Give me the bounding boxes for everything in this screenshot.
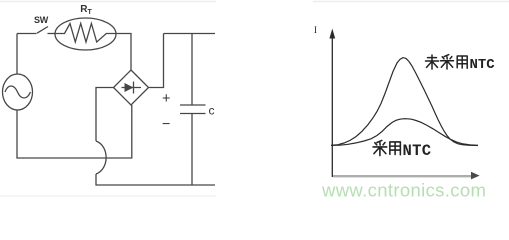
wire switch to RT ellipse <box>48 33 56 35</box>
switch SW blade <box>37 27 48 34</box>
faint top border left image <box>0 1 216 3</box>
svg-text:c: c <box>209 104 215 118</box>
graph Y axis arrowhead <box>329 29 335 39</box>
wire top right rail <box>164 33 216 35</box>
bridge diode cathode bar <box>133 82 135 94</box>
svg-text:+: + <box>162 91 170 107</box>
svg-text:SW: SW <box>34 15 49 25</box>
wire hop to bottom rail <box>96 174 215 185</box>
AC source circle <box>3 74 33 110</box>
hanzi yong <box>457 56 467 68</box>
wire bridge right terminal <box>149 34 164 88</box>
svg-text:RT: RT <box>80 4 92 16</box>
label 采用NTC <box>373 140 400 155</box>
wire AC bottom lead <box>17 105 132 158</box>
curve big (without NTC) <box>331 58 478 146</box>
hanzi yong <box>390 142 401 155</box>
wire capacitor top lead <box>191 34 193 106</box>
capacitor C top plate <box>180 104 206 106</box>
wire top to switch <box>17 33 37 35</box>
capacitor C bottom plate <box>180 113 206 115</box>
svg-text:NTC: NTC <box>403 142 432 160</box>
hanzi cai <box>373 140 387 155</box>
graph X axis shaft <box>333 175 471 177</box>
AC source sine <box>5 86 31 98</box>
svg-text:NTC: NTC <box>470 57 496 73</box>
wire RT to bridge top corner <box>116 34 131 71</box>
label 未采用NTC <box>426 55 468 69</box>
thermistor RT ellipse <box>55 18 116 50</box>
bridge diode line <box>122 87 142 89</box>
thermistor RT zigzag <box>56 24 117 43</box>
svg-text:I: I <box>314 25 317 35</box>
hanzi cai <box>441 55 454 69</box>
graph X axis arrowhead <box>471 172 480 180</box>
curve small (with NTC) <box>331 119 478 146</box>
wire left vertical (AC top lead) <box>16 34 18 75</box>
hanzi wei <box>426 55 439 69</box>
bridge rectifier diamond <box>114 70 149 105</box>
wire bridge left terminal <box>96 88 114 142</box>
wire capacitor bottom lead <box>191 114 193 186</box>
faint bottom border left image <box>0 195 216 197</box>
bridge diode arrow <box>125 83 134 92</box>
svg-text:−: − <box>162 117 170 133</box>
wire hop over (crossing arc) <box>96 141 106 174</box>
svg-text:www.cntronics.com: www.cntronics.com <box>321 180 486 201</box>
graph Y axis <box>331 36 333 177</box>
faint top border right image <box>313 1 509 3</box>
